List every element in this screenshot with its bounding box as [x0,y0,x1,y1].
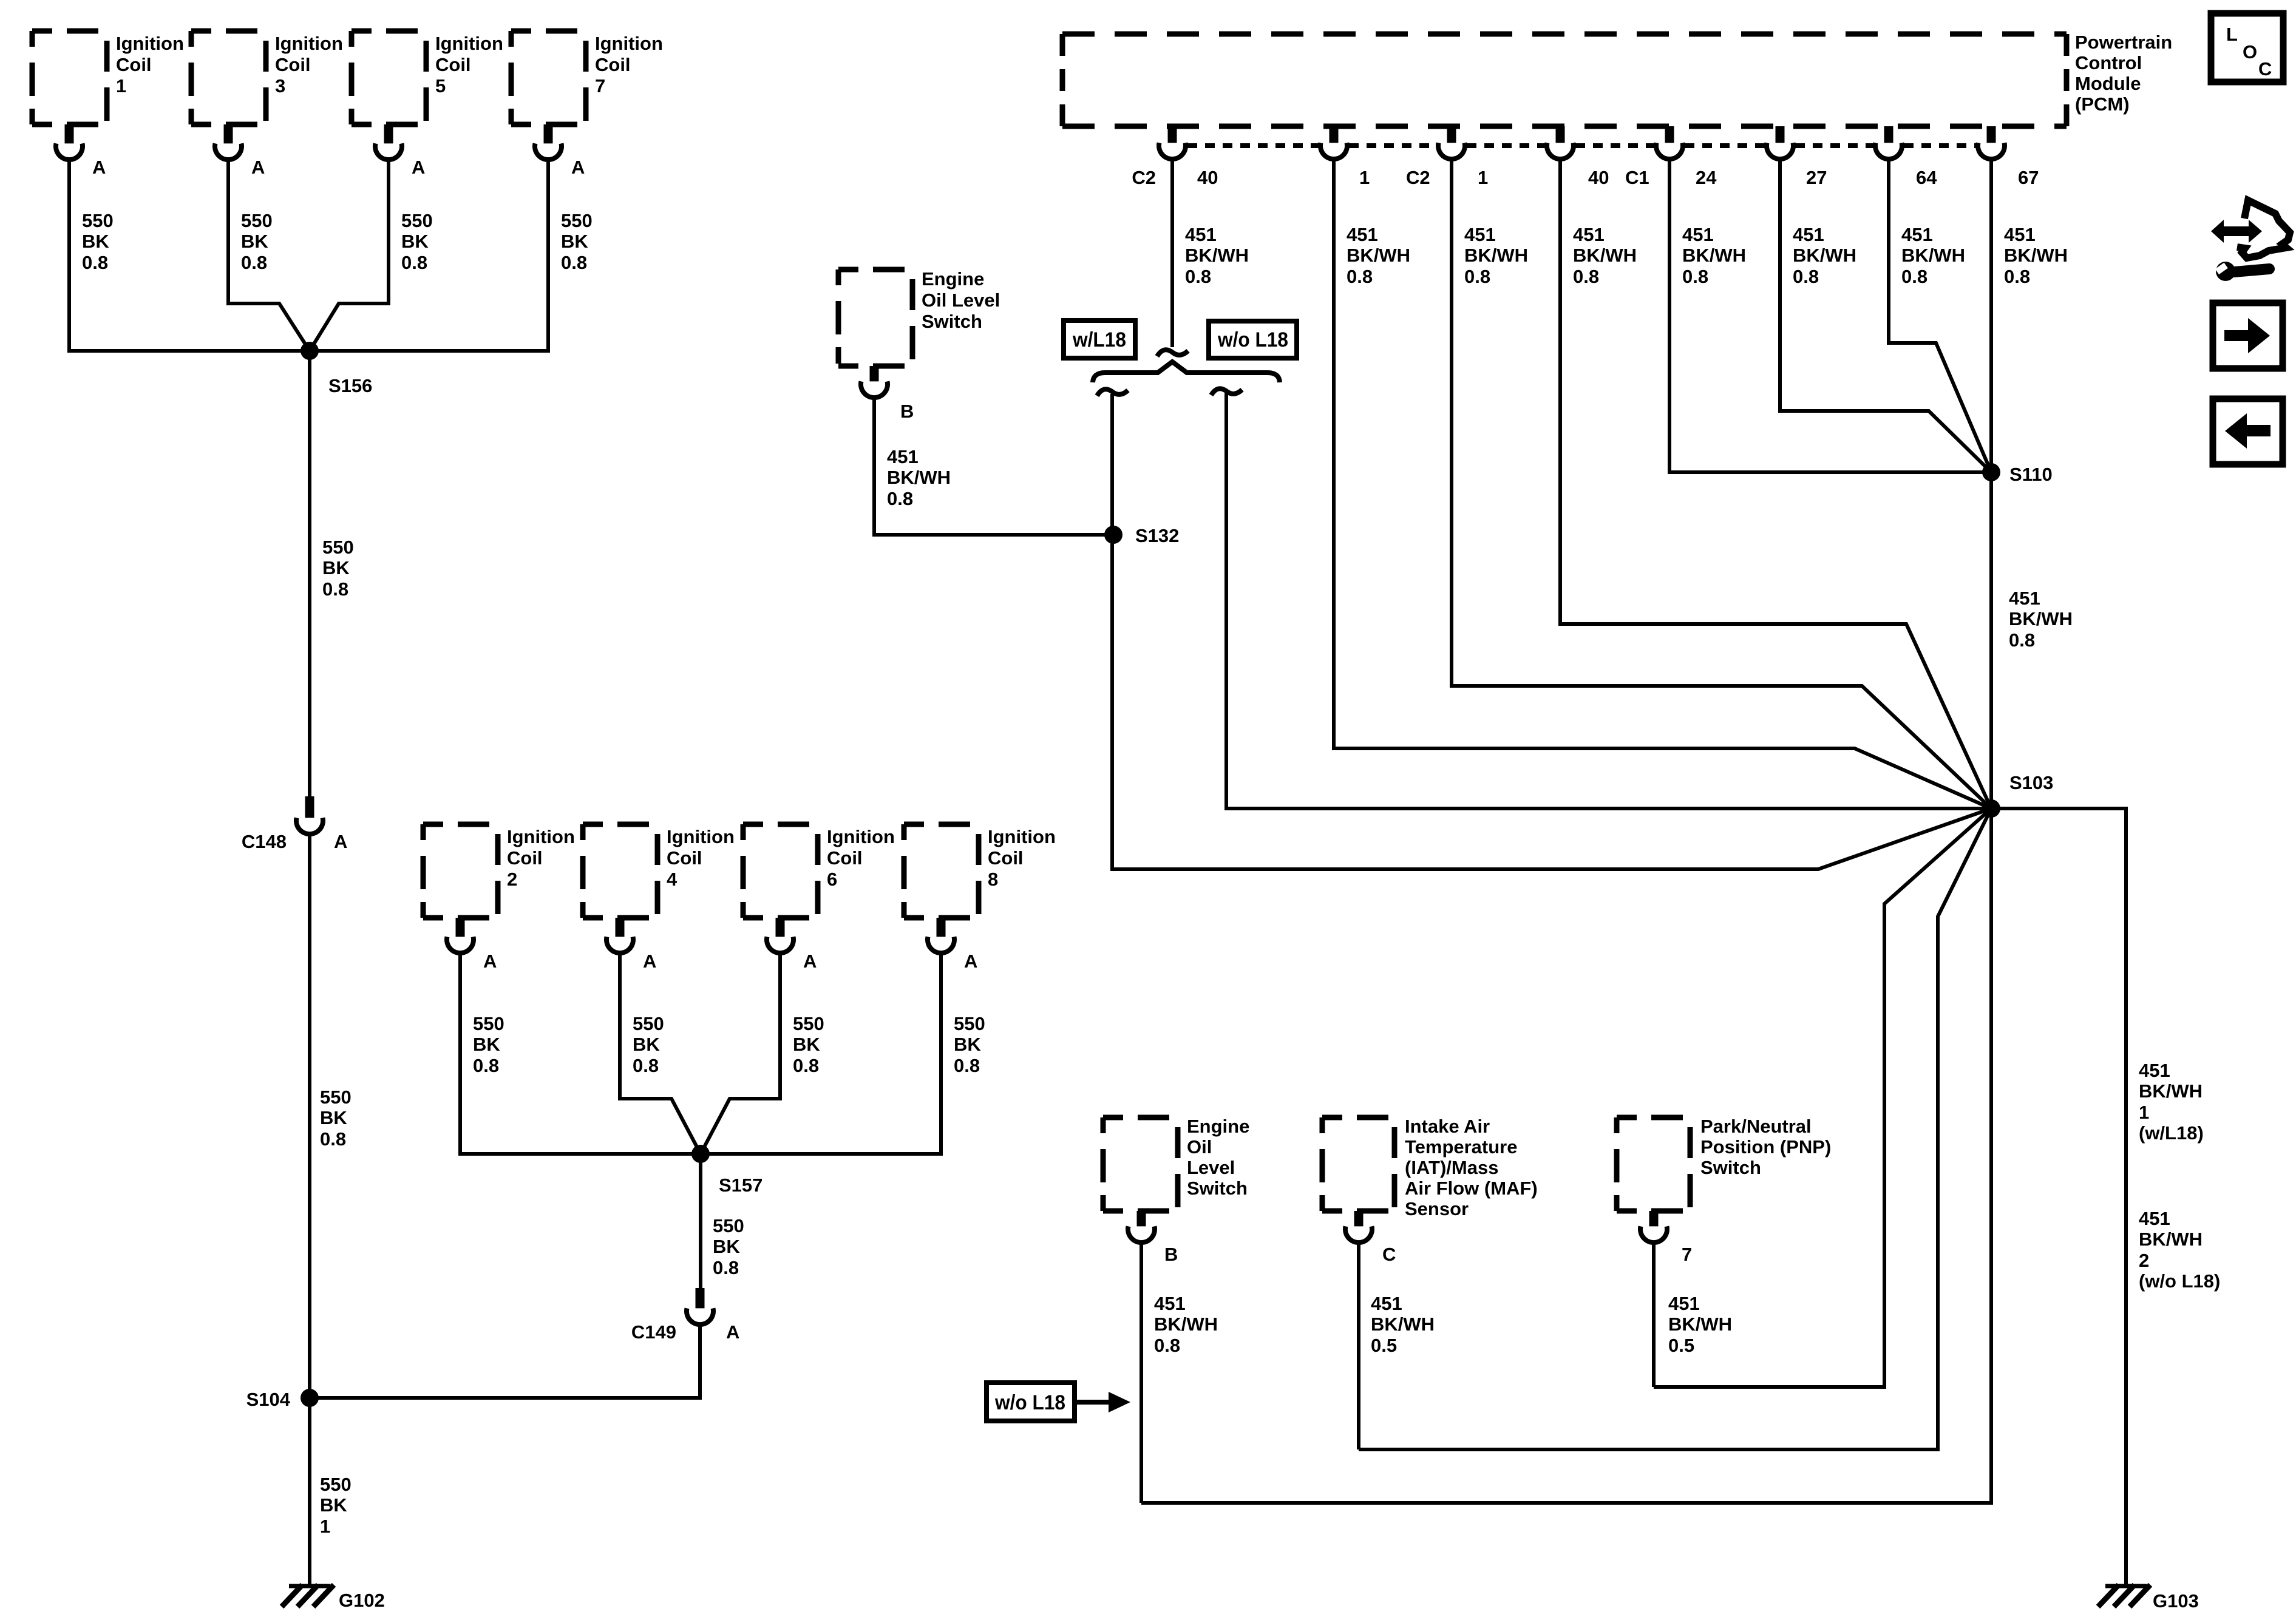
splice S104 [301,1389,319,1407]
svg-text:A: A [92,157,106,178]
ignition coil 5 box [352,31,426,124]
svg-text:550: 550 [322,537,354,558]
wire C148 to S104 [308,833,311,1398]
svg-text:550: 550 [320,1086,352,1108]
svg-text:451: 451 [2139,1060,2170,1081]
svg-text:G102: G102 [339,1590,385,1611]
svg-text:0.8: 0.8 [793,1055,819,1076]
svg-text:1: 1 [1478,167,1488,188]
next-page right arrow box [2213,303,2283,368]
wire S103 to PNP switch [1654,808,1991,1387]
svg-text:Ignition: Ignition [595,33,663,54]
powertrain control module (PCM) box [1062,34,2067,126]
svg-text:451: 451 [1901,224,1933,245]
engine oil level switch (top) box [838,269,912,366]
ignition coil 3 box [191,31,266,124]
svg-text:550: 550 [320,1474,352,1495]
svg-text:Coil: Coil [595,54,631,75]
svg-text:BK/WH: BK/WH [1185,245,1249,266]
prev-page left arrow box [2213,399,2283,464]
splice S157 [691,1145,710,1163]
svg-text:BK/WH: BK/WH [1573,245,1637,266]
ignition coil 3 pin stub [224,124,233,146]
svg-text:0.8: 0.8 [1573,266,1599,287]
svg-text:A: A [726,1321,739,1343]
svg-text:Control: Control [2075,52,2142,73]
svg-text:Coil: Coil [116,54,152,75]
svg-text:0.8: 0.8 [1682,266,1708,287]
wire coil 2 to S157 bus [460,952,701,1154]
LOC reference box [2211,13,2283,82]
PCM connector face dashed line [1187,143,1976,148]
svg-text:S104: S104 [246,1389,291,1410]
wire PCM pin 40-C1 to S103 [1560,158,1991,808]
svg-text:(PCM): (PCM) [2075,93,2130,115]
svg-text:0.8: 0.8 [1901,266,1927,287]
ignition coil 4 box [583,824,657,918]
svg-text:0.8: 0.8 [473,1055,499,1076]
svg-text:0.8: 0.8 [633,1055,659,1076]
svg-text:S110: S110 [2009,464,2053,485]
svg-text:0.8: 0.8 [1185,266,1211,287]
wire w/L18 branch to S132 [1110,394,1114,535]
wire S103 to oil level switch (bottom) [1141,808,1991,1503]
svg-text:(IAT)/Mass: (IAT)/Mass [1405,1157,1498,1178]
wire PCM pin C1-24 to S110 [1669,158,1991,472]
svg-text:1: 1 [2139,1102,2149,1123]
PCM pin stub 3 [1447,126,1456,143]
svg-text:S103: S103 [2009,772,2053,793]
svg-text:G103: G103 [2153,1590,2199,1612]
IAT/MAF sensor box [1322,1117,1394,1211]
svg-text:Coil: Coil [435,54,471,75]
wire coil 5 to S156 [310,159,389,351]
svg-text:3: 3 [275,75,285,97]
svg-text:0.5: 0.5 [1668,1335,1694,1356]
PCM pin connector 6 [1767,143,1793,159]
svg-text:Ignition: Ignition [827,826,895,847]
w/o L18 option box [1209,321,1297,358]
svg-text:BK/WH: BK/WH [1793,245,1856,266]
svg-text:BK/WH: BK/WH [2139,1080,2203,1102]
svg-text:BK/WH: BK/WH [1347,245,1410,266]
svg-text:550: 550 [401,210,433,231]
engine oil level switch (top) pin stub [870,366,879,382]
wire PCM pin 67 to S110 [1989,158,1993,472]
wire IAT/MAF sensor down [1357,1242,1360,1449]
svg-text:BK: BK [954,1034,981,1055]
w/o L18 callout box [987,1383,1075,1421]
ignition coil 4 pin A connector [606,937,633,953]
svg-text:0.8: 0.8 [1154,1335,1180,1356]
wire S103 to IAT/MAF sensor [1359,808,1991,1449]
engine oil level switch (bottom) pin B connector [1128,1226,1155,1242]
ignition coil 1 pin stub [65,124,74,146]
svg-text:Powertrain: Powertrain [2075,32,2172,53]
PCM pin connector 5 [1656,143,1683,159]
svg-text:BK: BK [241,231,268,252]
IAT/MAF sensor pin C connector [1345,1226,1372,1242]
engine oil level switch (top) pin B connector [861,381,888,398]
svg-text:BK: BK [473,1034,500,1055]
svg-text:1: 1 [320,1516,330,1537]
svg-text:0.5: 0.5 [1371,1335,1397,1356]
svg-text:451: 451 [1154,1293,1186,1314]
svg-text:BK/WH: BK/WH [1464,245,1528,266]
svg-text:(w/o L18): (w/o L18) [2139,1270,2220,1292]
engine oil level switch (bottom) pin stub [1137,1211,1146,1227]
ignition coil 1 box [32,31,107,124]
svg-text:BK: BK [322,557,350,578]
wire PCM pin C2-1(2nd) to S103 [1452,158,1991,808]
svg-text:C2: C2 [1132,167,1156,188]
svg-text:A: A [803,951,817,972]
svg-text:Coil: Coil [507,847,543,869]
connector C149 [687,1308,713,1324]
svg-text:0.8: 0.8 [561,252,587,273]
wire w/o L18 branch to S103 [1226,393,1991,808]
wire S103 to G103 [1991,808,2126,1585]
ignition coil 3 pin A connector [215,143,242,160]
svg-text:451: 451 [1371,1293,1402,1314]
svg-text:27: 27 [1806,167,1827,188]
svg-text:BK/WH: BK/WH [2009,608,2073,629]
wire oil level switch B to S132 [874,397,1113,535]
svg-text:Park/Neutral: Park/Neutral [1700,1116,1812,1137]
svg-text:BK: BK [82,231,109,252]
svg-text:A: A [334,831,347,852]
svg-text:64: 64 [1916,167,1937,188]
park/neutral position switch pin 7 connector [1640,1226,1667,1242]
svg-text:B: B [900,401,914,422]
svg-text:Temperature: Temperature [1405,1136,1518,1158]
svg-text:7: 7 [1682,1244,1692,1265]
svg-text:Coil: Coil [827,847,863,869]
PCM pin connector 3 [1438,143,1465,159]
ignition coil 2 pin A connector [447,937,474,953]
splice S132 [1104,526,1123,544]
svg-text:24: 24 [1696,167,1717,188]
svg-text:BK/WH: BK/WH [2004,245,2068,266]
svg-text:4: 4 [667,869,678,890]
svg-text:451: 451 [1347,224,1378,245]
svg-text:5: 5 [435,75,446,97]
PCM pin stub 7 [1884,126,1894,143]
svg-text:Engine: Engine [1187,1116,1249,1137]
svg-text:Switch: Switch [1187,1178,1248,1199]
PCM pin stub 2 [1330,126,1339,143]
svg-text:A: A [571,157,585,178]
svg-text:C149: C149 [631,1321,676,1343]
svg-text:6: 6 [827,869,837,890]
break squiggle w/o L18 branch [1211,388,1242,395]
svg-text:A: A [412,157,425,178]
svg-text:BK: BK [320,1494,347,1516]
svg-text:Level: Level [1187,1157,1235,1178]
ignition coil 8 pin A connector [928,937,954,953]
ignition coil 8 pin stub [937,918,946,939]
svg-text:S157: S157 [719,1175,763,1196]
break squiggle w/L18 branch [1097,389,1128,396]
svg-text:550: 550 [713,1215,744,1236]
svg-text:0.8: 0.8 [713,1257,739,1278]
wire PCM pin C2-1 to S103 [1334,158,1991,808]
svg-text:67: 67 [2018,167,2039,188]
svg-text:451: 451 [1682,224,1714,245]
svg-text:40: 40 [1197,167,1218,188]
svg-text:451: 451 [2139,1208,2170,1229]
svg-text:Oil: Oil [1187,1136,1212,1158]
wire S104 to G102 [308,1398,311,1585]
connector service icon wrench [2216,262,2235,281]
svg-text:451: 451 [887,446,919,467]
wire oil level switch (bottom) down [1140,1242,1143,1503]
wire S132 down and right to S103 [1112,535,1991,869]
wire coil 4 to S157 [620,952,701,1154]
PCM pin stub 1 [1168,126,1177,143]
svg-text:L: L [2226,24,2238,45]
ignition coil 4 pin stub [616,918,625,939]
svg-text:w/o L18: w/o L18 [994,1391,1065,1414]
svg-text:A: A [964,951,977,972]
wire coil 8 to S157 bus [701,952,941,1154]
svg-text:0.8: 0.8 [241,252,267,273]
svg-text:A: A [251,157,265,178]
park/neutral position switch box [1617,1117,1690,1211]
svg-text:0.8: 0.8 [82,252,108,273]
ignition coil 6 pin stub [776,918,785,939]
ignition coil 2 pin stub [456,918,465,939]
svg-text:Ignition: Ignition [507,826,575,847]
svg-text:BK: BK [793,1034,820,1055]
svg-text:451: 451 [2009,588,2040,609]
svg-text:Ignition: Ignition [116,33,184,54]
svg-text:0.8: 0.8 [954,1055,980,1076]
svg-text:451: 451 [1573,224,1605,245]
svg-text:BK/WH: BK/WH [1154,1314,1218,1335]
prev-page left arrow [2225,413,2271,449]
svg-text:550: 550 [954,1013,985,1034]
ignition coil 6 pin A connector [767,937,793,953]
svg-text:Switch: Switch [922,311,982,332]
wire S110 to S103 [1989,472,1993,808]
svg-text:Oil Level: Oil Level [922,290,1000,311]
w/o L18 callout arrow [1075,1400,1109,1405]
wire coil 7 to S156 bus [310,159,548,351]
svg-text:Position (PNP): Position (PNP) [1700,1136,1831,1158]
svg-text:Switch: Switch [1700,1157,1761,1178]
svg-text:0.8: 0.8 [1464,266,1490,287]
svg-text:BK/WH: BK/WH [2139,1229,2203,1250]
svg-text:0.8: 0.8 [1347,266,1373,287]
park/neutral position switch pin stub [1649,1211,1659,1227]
svg-text:O: O [2243,41,2257,63]
PCM pin stub 8 [1987,126,1996,143]
PCM pin connector 4 [1547,143,1574,159]
wire S157 to C149 [699,1154,702,1288]
svg-text:7: 7 [595,75,605,97]
splice S103 [1982,799,2000,818]
PCM pin connector 8 [1978,143,2005,159]
svg-text:BK: BK [320,1107,347,1128]
svg-text:0.8: 0.8 [887,488,913,509]
svg-text:0.8: 0.8 [2009,629,2035,651]
svg-text:BK: BK [713,1236,740,1257]
svg-text:Ignition: Ignition [275,33,343,54]
svg-text:Ignition: Ignition [667,826,735,847]
ignition coil 7 pin A connector [535,143,562,160]
connector C148 [296,818,323,834]
connector service icon arrow [2211,220,2262,243]
svg-text:Coil: Coil [275,54,311,75]
connector C148 pin stub [305,796,314,818]
svg-text:B: B [1164,1244,1178,1265]
svg-text:w/o L18: w/o L18 [1217,328,1288,351]
svg-text:C1: C1 [1625,167,1649,188]
svg-text:Coil: Coil [988,847,1024,869]
wire PCM pin 64 to S110 [1889,158,1991,472]
svg-text:BK: BK [401,231,429,252]
svg-text:C2: C2 [1406,167,1430,188]
svg-text:1: 1 [116,75,126,97]
svg-text:2: 2 [2139,1250,2149,1271]
connector service icon housing [2237,200,2290,258]
svg-text:40: 40 [1588,167,1609,188]
svg-text:S156: S156 [328,375,372,396]
wire PCM pin C2-40 down to break [1170,158,1174,347]
svg-text:451: 451 [1793,224,1824,245]
svg-text:w/L18: w/L18 [1072,328,1126,351]
svg-text:451: 451 [1464,224,1496,245]
ignition coil 2 box [423,824,498,918]
PCM pin stub 5 [1665,126,1674,143]
ground G103 [2105,1584,2147,1588]
break squiggle pin C2-40 wire [1157,350,1188,356]
svg-text:S132: S132 [1135,525,1179,546]
wire coil 3 to S156 [228,159,310,351]
svg-text:BK/WH: BK/WH [1682,245,1746,266]
ignition coil 1 pin A connector [56,143,83,160]
ground G102 [289,1584,330,1588]
svg-text:1: 1 [1359,167,1370,188]
svg-text:Intake Air: Intake Air [1405,1116,1490,1137]
PCM pin connector 1 [1159,143,1186,159]
svg-text:Ignition: Ignition [988,826,1056,847]
wire PNP switch down [1652,1242,1656,1387]
svg-text:BK/WH: BK/WH [1901,245,1965,266]
svg-text:550: 550 [241,210,273,231]
connector C149 pin stub [696,1288,705,1309]
svg-text:2: 2 [507,869,517,890]
IAT/MAF sensor pin stub [1354,1211,1364,1227]
svg-text:BK: BK [633,1034,660,1055]
PCM pin stub 6 [1776,126,1785,143]
svg-text:A: A [483,951,497,972]
svg-text:C: C [1382,1244,1396,1265]
svg-text:8: 8 [988,869,998,890]
svg-text:0.8: 0.8 [320,1128,346,1150]
svg-text:Ignition: Ignition [435,33,503,54]
svg-text:Engine: Engine [922,268,984,290]
splice S110 [1982,463,2000,481]
wire PCM pin 27 to S110 [1780,158,1991,472]
PCM pin connector 2 [1320,143,1347,159]
PCM pin connector 7 [1875,143,1902,159]
svg-text:BK/WH: BK/WH [1371,1314,1435,1335]
svg-text:A: A [643,951,656,972]
svg-text:550: 550 [82,210,114,231]
alternative-wiring brace [1093,362,1280,382]
w/L18 option box [1064,320,1135,358]
wire coil 1 to S156 bus [69,159,310,351]
ignition coil 5 pin A connector [375,143,402,160]
svg-text:0.8: 0.8 [1793,266,1819,287]
svg-text:451: 451 [1185,224,1217,245]
svg-text:550: 550 [793,1013,824,1034]
svg-text:0.8: 0.8 [401,252,427,273]
svg-text:BK/WH: BK/WH [887,467,951,488]
svg-text:451: 451 [2004,224,2036,245]
engine oil level switch (bottom) box [1103,1117,1178,1211]
svg-text:550: 550 [473,1013,504,1034]
svg-text:0.8: 0.8 [2004,266,2030,287]
svg-text:Sensor: Sensor [1405,1198,1469,1219]
ignition coil 7 box [511,31,586,124]
ignition coil 7 pin stub [544,124,553,146]
wire S104 to C149 [310,1320,700,1398]
wire S156 to C148 [308,351,311,796]
wire coil 6 to S157 [701,952,780,1154]
splice S156 [301,342,319,360]
ignition coil 5 pin stub [384,124,393,146]
svg-text:Module: Module [2075,73,2141,94]
svg-text:451: 451 [1668,1293,1700,1314]
svg-text:C148: C148 [242,831,287,852]
svg-text:(w/L18): (w/L18) [2139,1122,2204,1144]
svg-text:Coil: Coil [667,847,702,869]
ignition coil 8 box [904,824,979,918]
PCM pin stub 4 [1556,126,1565,143]
svg-text:BK: BK [561,231,588,252]
next-page right arrow [2224,318,2270,353]
ignition coil 6 box [743,824,818,918]
svg-text:BK/WH: BK/WH [1668,1314,1732,1335]
svg-text:C: C [2258,58,2272,80]
svg-text:550: 550 [633,1013,664,1034]
svg-text:0.8: 0.8 [322,578,348,600]
svg-text:550: 550 [561,210,593,231]
svg-text:Air Flow (MAF): Air Flow (MAF) [1405,1178,1538,1199]
